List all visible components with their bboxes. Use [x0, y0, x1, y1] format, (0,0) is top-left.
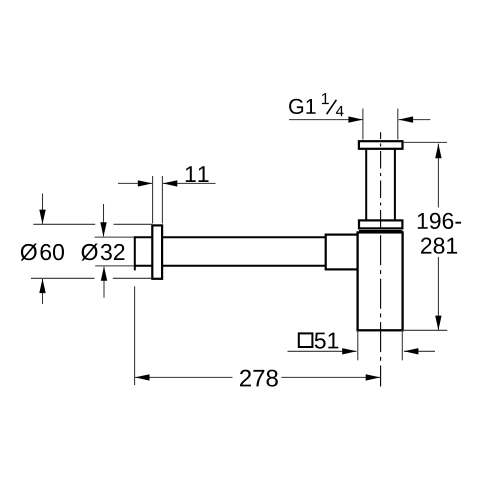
- dimension 11 arrow right: [163, 180, 216, 186]
- dimension diameter 32 arrow bottom: [101, 266, 107, 297]
- dimension G1 1/4 arrow right: [399, 116, 431, 122]
- centerline (vertical axis): [380, 132, 382, 228]
- dimension square51 extension lines: [358, 331, 403, 361]
- gasket: [359, 230, 402, 232]
- dimension G1 1/4 arrow left: [289, 116, 363, 122]
- slip nut (vertical pipe): [359, 220, 402, 228]
- label G1 1/4: [289, 93, 343, 116]
- inlet pipe (vertical tailpiece): [366, 149, 395, 221]
- label diameter 32: [81, 244, 97, 261]
- dimension 278 arrow right: [281, 374, 380, 380]
- inlet flange (top): [359, 141, 403, 149]
- label 278: [240, 370, 278, 387]
- dimension diameter 32 arrow top: [100, 204, 106, 237]
- label 196-281: [418, 213, 461, 254]
- trap body: [358, 232, 403, 330]
- dimension diameter 60 arrow bottom: [39, 279, 45, 304]
- dimension 196-281 line and arrows: [435, 144, 441, 331]
- label diameter 60: [21, 244, 37, 261]
- dimension diameter 32 extension lines: [95, 237, 134, 266]
- dimension 278 extension line (wall plane): [134, 286, 136, 385]
- label square 51: [299, 333, 339, 349]
- dimension 11 extension lines: [153, 176, 163, 224]
- dimension 196-281 extension lines: [403, 142, 448, 330]
- dimension diameter 60 arrow top: [39, 194, 45, 225]
- dimension square51 arrow right: [404, 348, 435, 354]
- wall flange (rosette): [152, 225, 162, 278]
- horizontal outlet pipe: [163, 237, 327, 266]
- compression nut (horizontal pipe): [326, 235, 359, 270]
- dimension square51 arrow left: [288, 348, 357, 354]
- dimension diameter 60 extension lines: [31, 224, 152, 278]
- dimension 278 arrow left: [135, 374, 233, 380]
- dimension G1 1/4 extension lines: [363, 109, 398, 140]
- wall pipe stub: [135, 236, 153, 270]
- label 11: [186, 166, 209, 182]
- dimension 11 arrow left: [118, 180, 152, 186]
